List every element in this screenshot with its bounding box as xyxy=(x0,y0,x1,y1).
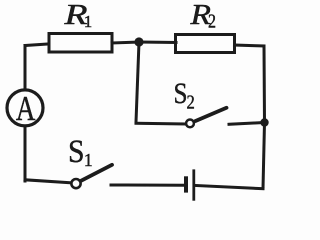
wire battery to bottom-right corner xyxy=(196,186,264,189)
wire R2 to top-right corner xyxy=(235,45,265,46)
svg-text:S: S xyxy=(68,134,85,170)
svg-text:1: 1 xyxy=(84,150,93,170)
svg-text:2: 2 xyxy=(208,12,216,33)
ammeter U1 xyxy=(7,90,43,126)
node B junction dot xyxy=(260,118,268,126)
wire left vertical lower xyxy=(24,126,27,181)
node A junction dot xyxy=(134,37,143,46)
svg-text:S: S xyxy=(174,77,188,110)
resistor R1 xyxy=(49,34,112,53)
switch S1 pivot circle xyxy=(71,179,80,188)
wire right vertical xyxy=(263,46,265,189)
wire S2 fixed contact to node B xyxy=(229,123,261,125)
switch S2 blade xyxy=(196,108,227,121)
resistor R2 xyxy=(176,35,235,53)
switch S2 pivot circle xyxy=(186,120,194,128)
wire R1 to node A xyxy=(112,42,139,43)
wire S1 fixed contact to battery xyxy=(111,184,184,187)
svg-text:1: 1 xyxy=(84,12,93,31)
switch S1 blade xyxy=(81,165,112,181)
wire S2 branch horizontal xyxy=(136,122,185,126)
wire bottom-left horizontal xyxy=(25,180,71,183)
svg-text:2: 2 xyxy=(187,92,195,113)
battery negative plate (short) xyxy=(184,176,188,192)
wire node A to R2 xyxy=(139,41,176,45)
wire S2 branch vertical xyxy=(136,42,139,122)
wire left vertical upper xyxy=(24,46,27,91)
svg-text:A: A xyxy=(16,90,36,128)
battery positive plate (long) xyxy=(192,169,195,200)
wire top-left horizontal xyxy=(25,44,48,46)
